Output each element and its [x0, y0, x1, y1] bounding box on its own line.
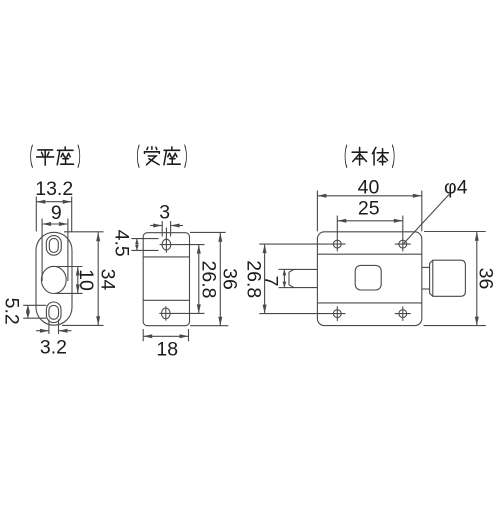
- dimension 25 (hole spacing): [337, 197, 403, 222]
- label (hontai) heading: [345, 145, 394, 167]
- hiraza bottom slot hole outer: [46, 302, 61, 323]
- dimension 4.5 (ukeza hole height): [110, 230, 158, 257]
- hiraza bottom slot hole inner: [49, 305, 59, 319]
- dimension 34 (hiraza height): [62, 232, 119, 326]
- dimension 3 (ukeza hole width): [150, 202, 183, 237]
- svg-text:9: 9: [51, 202, 62, 224]
- hontai body outline: [317, 232, 421, 326]
- dimension 18 (ukeza width): [143, 329, 188, 360]
- ukeza bottom bend line: [143, 299, 189, 301]
- ukeza top bend line: [143, 256, 189, 258]
- hontai bottom flange line: [317, 302, 421, 304]
- bottom-left hole crosshair: [329, 306, 345, 321]
- dimension 36 (hontai height): [424, 232, 497, 326]
- hiraza middle oval hole 9x10: [41, 266, 66, 293]
- svg-text:26.8: 26.8: [198, 261, 220, 299]
- dimension 13.2 (hiraza width): [35, 178, 73, 231]
- knob stem on right: [422, 267, 430, 289]
- svg-text:36: 36: [474, 268, 496, 290]
- svg-text:3.2: 3.2: [40, 337, 67, 359]
- ukeza bottom slot hole: [162, 308, 171, 319]
- hiraza plate outline (stadium shape): [36, 232, 72, 325]
- dimension 10 (middle hole height): [55, 267, 97, 294]
- hiraza top slot hole outer: [46, 236, 61, 256]
- svg-text:φ4: φ4: [444, 176, 468, 198]
- label (ukeza) heading: [137, 145, 186, 167]
- ukeza top slot hole: [162, 239, 171, 250]
- dimension 3.2 (bottom slot inner width): [36, 320, 72, 359]
- dimension 26.8 (hontai hole spacing): [242, 244, 329, 314]
- svg-text:26.8: 26.8: [242, 260, 264, 298]
- hontai center rounded square: [355, 265, 381, 290]
- hontai top flange line: [317, 253, 421, 255]
- top-right hole crosshair: [395, 216, 411, 252]
- svg-text:13.2: 13.2: [35, 178, 73, 200]
- hontai screw hole top-right: [399, 240, 407, 248]
- dimension 7 (bolt height): [260, 269, 294, 287]
- latch bolt on left: [289, 269, 317, 287]
- hontai screw hole bottom-left: [333, 310, 341, 318]
- dimension 5.2 (bottom slot inner height): [1, 298, 47, 325]
- dimension phi-4 with leader line: [403, 176, 467, 244]
- svg-text:36: 36: [219, 268, 241, 290]
- label (hiraza) heading: [31, 145, 80, 167]
- dimension 40 (hontai width): [317, 177, 421, 232]
- bottom-right hole crosshair: [395, 306, 411, 321]
- svg-text:3: 3: [159, 202, 170, 224]
- hontai screw hole bottom-right: [399, 310, 407, 318]
- dimension 36 (ukeza height): [190, 232, 241, 325]
- ukeza bottom hole crosshair: [159, 306, 204, 320]
- svg-text:25: 25: [358, 197, 380, 219]
- ukeza plate outline: [143, 233, 189, 326]
- svg-text:5.2: 5.2: [1, 298, 23, 325]
- dimension 9 (middle hole width): [42, 202, 68, 281]
- hiraza top slot hole inner: [49, 238, 58, 252]
- ukeza top hole crosshair: [160, 228, 205, 253]
- svg-text:34: 34: [97, 269, 119, 291]
- knob on right: [430, 260, 466, 296]
- top-left hole crosshair: [329, 216, 345, 252]
- hontai screw hole top-left: [333, 240, 341, 248]
- dimension 26.8 (ukeza hole spacing): [197, 245, 220, 314]
- svg-text:4.5: 4.5: [110, 230, 132, 257]
- svg-text:18: 18: [156, 338, 178, 360]
